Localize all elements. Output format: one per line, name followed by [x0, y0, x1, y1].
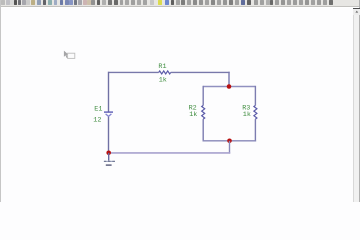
wire bottom rail of parallel section [203, 140, 257, 142]
mouse cursor [64, 51, 75, 59]
wire top rail of parallel section [203, 86, 255, 88]
resistor R2 [202, 105, 205, 119]
resistor R1 [159, 71, 171, 74]
scrollbar up arrow [355, 11, 358, 13]
wire left vertical lower (battery bottom) [108, 117, 110, 153]
svg-text:1k: 1k [243, 111, 251, 119]
ground bar 2 [106, 164, 112, 166]
svg-text:E1: E1 [94, 105, 102, 113]
svg-text:1k: 1k [189, 111, 197, 119]
node A junction dot [227, 84, 232, 89]
wire top horizontal left of R1 [109, 71, 159, 73]
ground stub wire [108, 153, 110, 161]
toolbar [0, 0, 360, 7]
svg-text:12: 12 [93, 116, 101, 124]
wire bottom horizontal [109, 152, 231, 154]
ground bar 1 dashes [104, 160, 115, 162]
scrollbar up button [353, 8, 360, 15]
battery E1 short plate chevron [106, 114, 112, 117]
ground bar 1 [104, 160, 115, 162]
node B junction dot [227, 139, 232, 144]
left window edge [0, 0, 2, 202]
resistor R3 [254, 105, 257, 119]
wire R3 branch lower [254, 119, 256, 141]
wire top horizontal right of R1 [171, 71, 230, 73]
wire R2 branch lower [202, 119, 204, 141]
vertical scrollbar [353, 8, 359, 202]
wire R2 branch upper [202, 86, 204, 106]
svg-text:1k: 1k [159, 77, 167, 85]
battery E1 long plate [104, 111, 113, 113]
wire vertical into node A [228, 72, 230, 87]
right window edge [358, 0, 360, 202]
wire left vertical upper (battery top) [108, 72, 110, 112]
wire R3 branch upper [254, 86, 256, 106]
wire stub below node B [229, 141, 231, 154]
svg-text:R1: R1 [158, 63, 166, 71]
ground node junction dot [106, 151, 111, 156]
